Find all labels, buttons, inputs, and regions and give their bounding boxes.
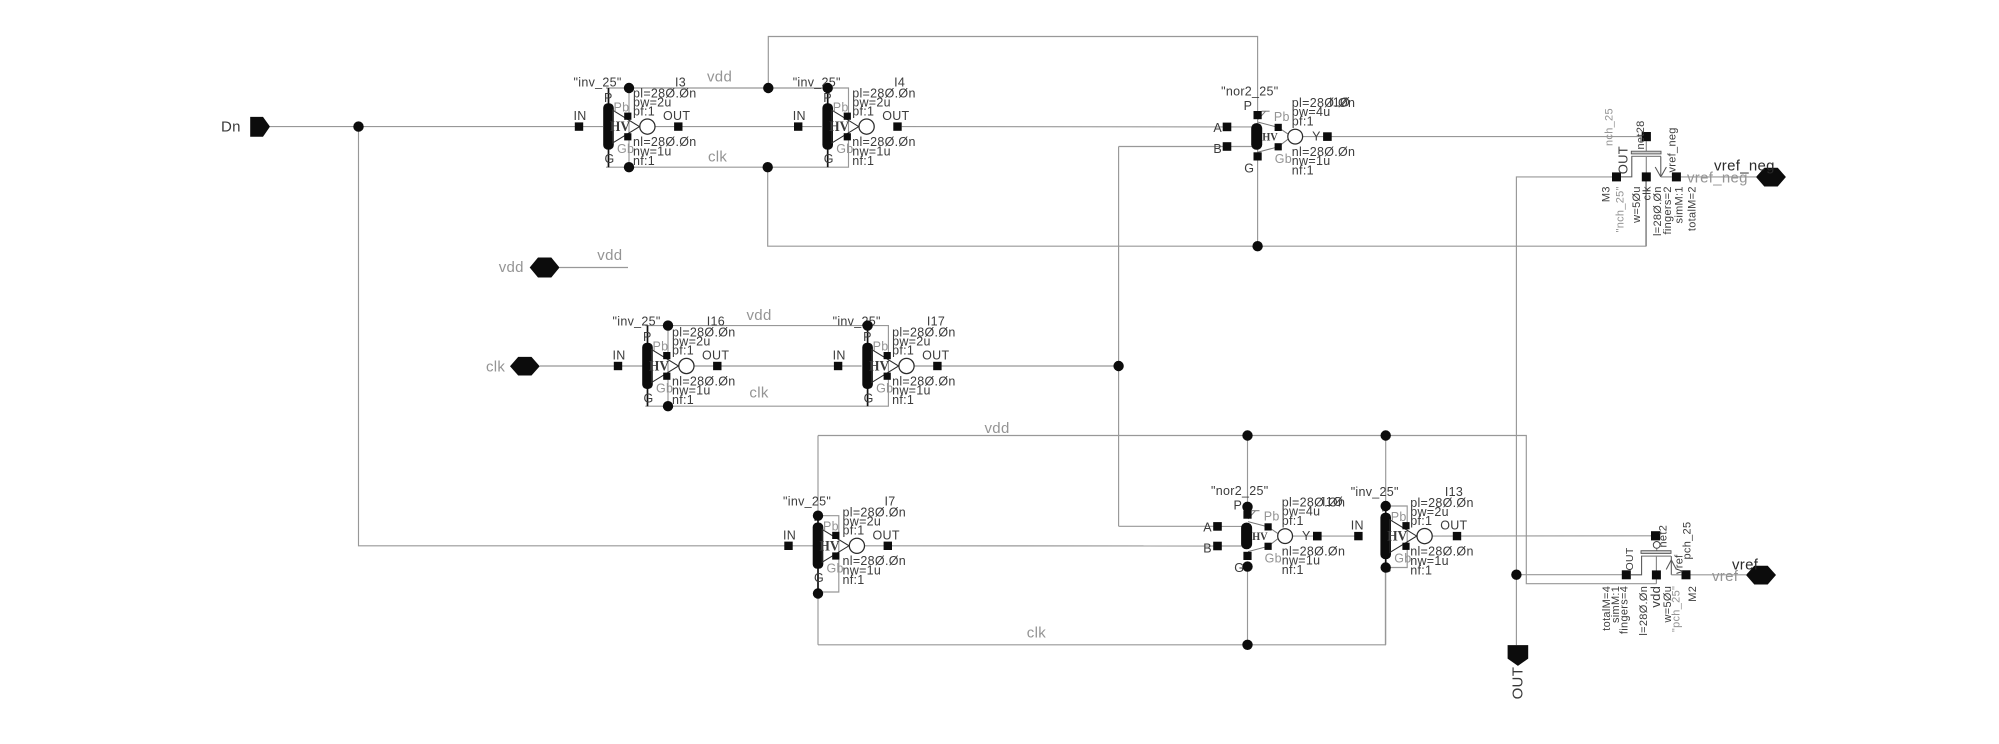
svg-text:HV: HV <box>869 359 889 375</box>
svg-text:vref_neg: vref_neg <box>1714 157 1775 174</box>
svg-text:P: P <box>863 330 872 344</box>
svg-text:G: G <box>814 571 824 585</box>
wire clk2x to nor2 I10 input B <box>1119 146 1227 148</box>
transistor M2 gate poly bar <box>1641 551 1671 554</box>
wire I4 OUT to nor2 I10 input A <box>902 126 1227 128</box>
svg-text:HV: HV <box>1262 129 1278 143</box>
inverter I7 bulk loop rectangle <box>818 516 839 592</box>
svg-text:G: G <box>1244 161 1254 175</box>
inverter I7 IN pin square <box>784 542 792 550</box>
svg-text:B: B <box>1213 142 1222 156</box>
inverter I13 Pb pin square <box>1402 522 1409 529</box>
wire I17 OUT to clk2x node <box>914 365 1119 367</box>
nor2 I10 Y pin square <box>1323 132 1332 141</box>
transistor M2 drain path to OUT <box>1631 556 1642 575</box>
svg-text:Dn: Dn <box>221 119 241 136</box>
node Dn junction <box>353 121 363 131</box>
wire vdd pin stub <box>560 267 629 269</box>
wire Dn junction down to inverter I7 row <box>359 127 785 546</box>
inverter I17 triangle <box>872 350 899 383</box>
nor2 I11 wire bubble to Y <box>1293 535 1314 537</box>
inverter I3 body bar <box>603 103 614 149</box>
svg-text:nf:1: nf:1 <box>1292 164 1314 178</box>
transistor M3 bulk pin square <box>1672 172 1681 181</box>
svg-text:Y: Y <box>1302 529 1311 543</box>
inverter I16 Pb pin square <box>663 352 670 359</box>
inverter I3 G stub <box>608 149 610 167</box>
inverter I17 body bar <box>862 343 873 389</box>
svg-text:OUT: OUT <box>873 528 900 542</box>
svg-text:OUT: OUT <box>663 109 690 123</box>
node I13 G pin <box>1381 562 1391 572</box>
inverter I4 triangle <box>832 110 859 143</box>
pin OUT <box>1508 645 1529 699</box>
wire clk line bottom <box>818 568 1385 645</box>
inverter I7 output bubble <box>849 538 864 553</box>
inverter I4 G stub <box>827 149 829 167</box>
svg-text:G: G <box>644 391 654 405</box>
inverter I3 output bubble <box>640 119 655 134</box>
node clk rail junction <box>763 162 773 172</box>
wire I13 P vertical from vdd <box>1385 436 1387 507</box>
svg-text:Gb: Gb <box>656 382 673 396</box>
wire M3 bulk to vref_neg pin <box>1681 176 1756 178</box>
node vdd junction nor2 I11 <box>1242 430 1252 440</box>
svg-text:vdd: vdd <box>707 69 732 86</box>
transistor M2 source path to vdd <box>1655 556 1657 584</box>
wire nor2 I11 Y to I13 IN <box>1321 535 1354 537</box>
node I3 P junction on vdd rail <box>624 83 634 93</box>
svg-text:I1Ø: I1Ø <box>1322 495 1343 509</box>
svg-text:vdd: vdd <box>1648 586 1663 608</box>
inverter I7 triangle <box>822 529 849 562</box>
svg-text:M3: M3 <box>1601 186 1613 202</box>
wire nor2 I11 P vertical from vdd <box>1247 436 1249 507</box>
inverter I16 OUT pin square <box>713 362 721 370</box>
svg-text:clk: clk <box>486 359 505 376</box>
nor2 I11 output bubble <box>1278 529 1293 544</box>
svg-text:"inv_25": "inv_25" <box>783 495 831 509</box>
inverter I17 Pb pin square <box>884 352 891 359</box>
node I16 G junction <box>663 401 673 411</box>
transistor M3 bulk arrow <box>1655 156 1666 177</box>
node I3 G junction on clk rail <box>624 162 634 172</box>
inverter I13 Gb pin square <box>1402 543 1409 550</box>
nor2 I11 input A square <box>1213 522 1222 531</box>
svg-text:P: P <box>643 330 652 344</box>
svg-text:pf:1: pf:1 <box>1410 514 1432 528</box>
svg-text:I1Ø: I1Ø <box>1329 96 1350 110</box>
inverter I7 G stub <box>817 568 819 593</box>
svg-text:IN: IN <box>783 528 796 542</box>
nor2 I11 G pin square <box>1243 552 1251 560</box>
svg-text:HV: HV <box>829 119 849 135</box>
pin vref <box>1732 556 1776 584</box>
inverter I4 bulk loop rectangle <box>828 88 849 167</box>
inverter I4 IN pin square <box>794 122 802 130</box>
svg-text:IN: IN <box>793 109 806 123</box>
svg-text:"nch_25": "nch_25" <box>1615 186 1627 232</box>
inverter I17 Gb pin square <box>884 373 891 380</box>
svg-text:nf:1: nf:1 <box>1410 563 1432 577</box>
svg-text:Gb: Gb <box>836 142 853 156</box>
svg-text:G: G <box>605 152 615 166</box>
svg-text:"inv_25": "inv_25" <box>613 315 661 329</box>
transistor M3 labels rotated <box>1601 108 1699 236</box>
wire I13 G vertical to clk line <box>1385 568 1387 645</box>
svg-text:pf:1: pf:1 <box>672 344 694 358</box>
svg-text:net2: net2 <box>1658 525 1670 548</box>
wire vdd loop to nor2 P (top rectangle) <box>768 37 1257 115</box>
svg-text:Gb: Gb <box>1394 552 1411 566</box>
wire clk rail top row <box>606 166 828 168</box>
inverter I3 triangle <box>613 110 640 143</box>
transistor M2 bulk pin square <box>1682 570 1691 579</box>
svg-text:vref_neg: vref_neg <box>1667 127 1679 172</box>
nor2 I10 input B square <box>1223 142 1232 151</box>
wire clk2x vertical <box>1118 147 1120 527</box>
wire clk loop to nor2 G and M3 source <box>768 167 1646 246</box>
svg-text:HV: HV <box>649 359 669 375</box>
transistor M2 OUT pin square <box>1622 570 1631 579</box>
svg-text:Gb: Gb <box>617 142 634 156</box>
svg-text:"nor2_25": "nor2_25" <box>1221 85 1278 99</box>
wire M2 bulk to vref pin <box>1691 574 1747 576</box>
transistor M2 gate stub <box>1656 548 1658 550</box>
wire vdd rail top row <box>606 87 828 89</box>
inverter I16 triangle <box>652 350 679 383</box>
svg-text:IN: IN <box>1351 519 1364 533</box>
nor2 I10 input A square <box>1223 123 1232 132</box>
svg-text:Gb: Gb <box>876 382 893 396</box>
inverter I3 labels <box>574 75 697 168</box>
node I7 P pin <box>813 511 823 521</box>
svg-text:nf:1: nf:1 <box>633 154 655 168</box>
pin vdd <box>499 258 560 278</box>
svg-text:Pb: Pb <box>823 520 839 534</box>
svg-text:OUT: OUT <box>922 349 949 363</box>
svg-text:vdd: vdd <box>499 259 524 276</box>
transistor M3 channel bar <box>1631 155 1661 157</box>
svg-text:nf:1: nf:1 <box>843 573 865 587</box>
inverter I4 P stub <box>827 88 829 104</box>
svg-text:OUT: OUT <box>1624 547 1636 570</box>
transistor M3 drain path to OUT <box>1617 156 1632 177</box>
svg-text:Pb: Pb <box>614 100 630 114</box>
node I13 P pin <box>1381 501 1391 511</box>
inverter I7 body bar <box>813 523 824 569</box>
svg-text:pch_25: pch_25 <box>1682 522 1694 560</box>
node I4 P pin <box>823 83 833 93</box>
svg-text:A: A <box>1213 121 1222 135</box>
inverter I4 Pb pin square <box>844 113 851 120</box>
node vdd rail junction <box>763 83 773 93</box>
nor2 I11 input stubs <box>1218 526 1243 546</box>
svg-text:vdd: vdd <box>747 307 772 324</box>
inverter I4 OUT pin square <box>893 122 901 130</box>
inverter I3 IN pin square <box>575 122 583 130</box>
svg-text:"inv_25": "inv_25" <box>793 75 841 89</box>
inverter I3 bulk rail <box>628 88 630 167</box>
svg-text:nch_25: nch_25 <box>1604 108 1616 146</box>
svg-text:M2: M2 <box>1687 586 1699 602</box>
inverter I13 OUT pin square <box>1453 532 1461 540</box>
nor2 I10 Gb pin square <box>1275 143 1282 150</box>
wire nor2 I11 G vertical to clk line <box>1247 567 1249 645</box>
wire I13 OUT to M2 gate <box>1432 535 1651 537</box>
svg-text:Pb: Pb <box>653 340 669 354</box>
wire clk2x to nor2 I11 input A <box>1119 525 1218 527</box>
inverter I17 P stub <box>867 326 869 343</box>
svg-text:IN: IN <box>833 349 846 363</box>
transistor M2 gate pin square (net2) <box>1651 531 1660 540</box>
inverter I13 G stub <box>1385 559 1387 568</box>
transistor M3 gate stub <box>1645 141 1647 151</box>
pin vref_neg <box>1714 157 1786 186</box>
svg-text:fingers=2: fingers=2 <box>1662 186 1674 234</box>
svg-text:P: P <box>604 91 613 105</box>
svg-text:"inv_25": "inv_25" <box>574 75 622 89</box>
inverter I16 labels <box>613 315 736 408</box>
nor2 I10 internal diagonals <box>1258 111 1288 152</box>
wire nor2 I10 Y to M3 gate <box>1331 136 1641 138</box>
svg-text:"pch_25": "pch_25" <box>1671 586 1683 632</box>
svg-text:pf:1: pf:1 <box>1292 115 1314 129</box>
svg-text:Pb: Pb <box>1391 510 1407 524</box>
wire M3 bulk to pin square <box>1661 176 1672 178</box>
svg-text:fingers=4: fingers=4 <box>1619 586 1631 634</box>
nor2 I10 output bubble <box>1288 129 1303 144</box>
inverter I13 IN pin square <box>1354 532 1362 540</box>
svg-text:HV: HV <box>610 119 630 135</box>
svg-text:OUT: OUT <box>702 349 729 363</box>
nor2 I11 Y pin square <box>1313 532 1322 541</box>
wire OUT to M2 drain <box>1516 574 1622 576</box>
inverter I17 OUT pin square <box>933 362 941 370</box>
inverter I7 OUT pin square <box>884 542 892 550</box>
transistor M2 channel bar <box>1641 555 1671 557</box>
node I17 P pin <box>862 320 872 330</box>
wire I16 OUT to I17 IN <box>694 365 862 367</box>
inverter I7 Pb pin square <box>832 532 839 539</box>
nor2 I11 labels <box>1203 484 1345 577</box>
inverter I13 labels <box>1351 485 1474 578</box>
nor2 I11 P pin square <box>1243 511 1251 519</box>
svg-text:P: P <box>1234 498 1243 512</box>
svg-text:OUT: OUT <box>1509 667 1526 700</box>
svg-text:Pb: Pb <box>833 100 849 114</box>
svg-text:IN: IN <box>613 349 626 363</box>
inverter I3 OUT pin square <box>674 122 682 130</box>
wire OUT net M3 to OUT pin (vertical) <box>1516 177 1612 645</box>
svg-text:HV: HV <box>1387 529 1407 545</box>
svg-text:G: G <box>824 152 834 166</box>
inverter I13 body bar <box>1380 513 1391 559</box>
svg-text:G: G <box>1234 561 1244 575</box>
inverter I13 P stub <box>1385 506 1387 513</box>
transistor M3 source pin square <box>1642 172 1651 181</box>
nor2 I11 input B square <box>1213 542 1222 551</box>
nor2 I10 wire bubble to Y <box>1303 136 1324 138</box>
wire M2 bulk to pin square <box>1671 574 1681 576</box>
node OUT junction with M2 drain <box>1511 570 1521 580</box>
transistor M2 gate bubble <box>1653 542 1660 549</box>
inverter I16 output bubble <box>679 358 694 373</box>
inverter I7 labels <box>783 495 906 588</box>
inverter I3 P stub <box>608 88 610 104</box>
inverter I17 labels <box>833 315 956 408</box>
node clk loop junction at nor2 G <box>1252 241 1262 251</box>
inverter I4 output bubble <box>859 119 874 134</box>
svg-text:totalM=2: totalM=2 <box>1687 186 1699 231</box>
node vdd junction I13 <box>1381 430 1391 440</box>
node nor2 I11 P pin <box>1242 502 1252 512</box>
transistor M3 gate poly bar <box>1631 151 1661 154</box>
transistor M3 gate pin square (net28) <box>1642 132 1651 141</box>
svg-text:"inv_25": "inv_25" <box>1351 485 1399 499</box>
svg-text:nf:1: nf:1 <box>1282 563 1304 577</box>
svg-text:Gb: Gb <box>1265 551 1282 565</box>
svg-text:vref: vref <box>1732 556 1759 573</box>
wire I7 input stub <box>784 545 813 547</box>
nor2 I11 Gb pin square <box>1265 543 1272 550</box>
nor2 I11 body bar <box>1241 523 1252 550</box>
svg-text:Pb: Pb <box>1264 509 1280 523</box>
inverter I13 triangle <box>1390 520 1417 553</box>
svg-text:pf:1: pf:1 <box>852 104 874 118</box>
svg-text:pf:1: pf:1 <box>892 344 914 358</box>
inverter I4 labels <box>793 75 916 168</box>
wire vdd line bottom section <box>818 436 1656 584</box>
inverter I16 IN pin square <box>614 362 622 370</box>
transistor M3 source path to clk <box>1645 156 1647 246</box>
svg-text:nf:1: nf:1 <box>892 393 914 407</box>
inverter I7 Gb pin square <box>832 552 839 559</box>
svg-text:OUT: OUT <box>882 109 909 123</box>
nor2 I10 input stubs <box>1227 127 1253 147</box>
wire clk rail middle row <box>645 405 867 407</box>
svg-text:pf:1: pf:1 <box>633 104 655 118</box>
svg-text:OUT: OUT <box>1440 519 1467 533</box>
svg-text:nf:1: nf:1 <box>672 393 694 407</box>
wire I7 G vertical to clk line <box>817 594 819 645</box>
svg-text:pf:1: pf:1 <box>1282 514 1304 528</box>
nor2 I10 Pb pin square <box>1275 124 1282 131</box>
svg-text:Y: Y <box>1312 130 1321 144</box>
inverter I17 G stub <box>867 389 869 407</box>
svg-text:A: A <box>1203 520 1212 534</box>
inverter I17 IN pin square <box>834 362 842 370</box>
svg-text:clk: clk <box>1027 625 1046 642</box>
inverter I16 G stub <box>647 389 649 407</box>
svg-text:Gb: Gb <box>1275 152 1292 166</box>
inverter I13 bulk loop rectangle <box>1386 506 1408 568</box>
svg-text:B: B <box>1203 541 1212 555</box>
wire clk pin to inverter I16 <box>540 365 643 367</box>
inverter I16 body bar <box>642 343 653 389</box>
nor2 I10 labels <box>1213 85 1355 178</box>
transistor M2 labels rotated <box>1601 522 1699 636</box>
inverter I3 Pb pin square <box>624 113 631 120</box>
nor2 I11 internal diagonals <box>1248 511 1278 552</box>
wire I7 P vertical from vdd <box>817 436 819 516</box>
transistor M2 bulk arrow <box>1666 556 1676 575</box>
wire nor2 I10 P rail vertical <box>1257 115 1259 247</box>
inverter I16 bulk rail <box>667 326 669 407</box>
inverter I16 P stub <box>647 326 649 343</box>
node nor2 I11 G pin <box>1242 561 1252 571</box>
transistor M2 source pin square <box>1652 570 1661 579</box>
nor2 I10 G pin square <box>1254 152 1262 160</box>
inverter I4 body bar <box>822 103 833 149</box>
wire I7 OUT to nor2 I11 input B <box>865 545 1218 547</box>
svg-text:OUT: OUT <box>1615 146 1630 174</box>
nor2 I10 body bar <box>1251 123 1262 150</box>
node I16 P junction <box>663 320 673 330</box>
svg-text:vdd: vdd <box>597 247 622 264</box>
inverter I7 P stub <box>817 516 819 523</box>
node clk junction nor2 I11 G <box>1242 640 1252 650</box>
inverter I3 Gb pin square <box>624 133 631 140</box>
node clk2x junction <box>1113 361 1123 371</box>
svg-text:P: P <box>1244 99 1253 113</box>
transistor M3 OUT pin square <box>1612 172 1621 181</box>
svg-text:"inv_25": "inv_25" <box>833 315 881 329</box>
node I7 G pin <box>813 588 823 598</box>
svg-text:net28: net28 <box>1635 120 1647 149</box>
pin clk <box>486 357 540 376</box>
svg-text:pf:1: pf:1 <box>843 524 865 538</box>
svg-text:IN: IN <box>574 109 587 123</box>
svg-text:"nor2_25": "nor2_25" <box>1211 484 1268 498</box>
svg-text:G: G <box>864 391 874 405</box>
inverter I17 output bubble <box>899 358 914 373</box>
wire vdd rail middle row <box>645 325 867 327</box>
svg-text:HV: HV <box>820 538 840 554</box>
inverter I16 Gb pin square <box>663 373 670 380</box>
svg-text:Pb: Pb <box>873 340 889 354</box>
svg-text:clk: clk <box>749 385 768 402</box>
nor2 I10 P pin square <box>1254 111 1262 119</box>
wire I3 OUT to I4 IN <box>655 126 822 128</box>
pin Dn <box>221 117 270 137</box>
svg-text:clk: clk <box>708 149 727 166</box>
svg-text:HV: HV <box>1252 529 1268 543</box>
inverter I13 output bubble <box>1417 529 1432 544</box>
svg-text:simM:1: simM:1 <box>1674 186 1686 223</box>
inverter I4 Gb pin square <box>844 133 851 140</box>
svg-text:nf:1: nf:1 <box>852 154 874 168</box>
inverter I17 bulk loop rectangle <box>868 326 889 407</box>
svg-text:Pb: Pb <box>1274 110 1290 124</box>
nor2 I11 Pb pin square <box>1265 523 1272 530</box>
wire Dn to inverter I3 IN <box>270 126 603 128</box>
svg-text:vdd: vdd <box>985 420 1010 437</box>
svg-text:Gb: Gb <box>827 561 844 575</box>
